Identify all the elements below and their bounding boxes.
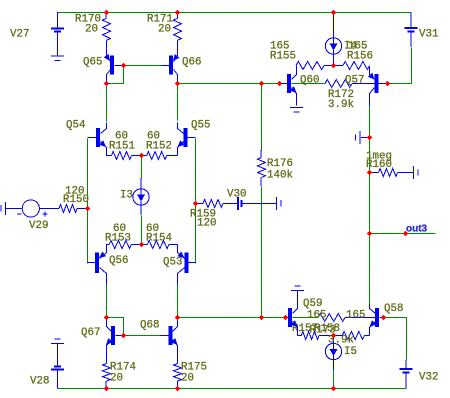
junction Q67 base	[121, 333, 127, 339]
svg-text:Q54: Q54	[66, 120, 85, 132]
junction R170 / top rail	[104, 10, 110, 16]
junction Q65 collector	[104, 81, 110, 87]
transistor Q60	[292, 66, 297, 80]
resistor R172	[325, 80, 352, 88]
ground V29	[5, 202, 7, 215]
ground V27	[51, 55, 64, 57]
junction R150 / input node	[85, 206, 91, 212]
ground Q59 collector	[291, 290, 304, 292]
svg-text:R153: R153	[105, 233, 131, 245]
resistor R173	[318, 314, 345, 322]
ground V28	[51, 342, 64, 344]
junction ground tap on output column	[367, 135, 373, 141]
svg-text:R151: R151	[109, 141, 135, 153]
wire I3 top	[141, 156, 143, 179]
svg-text:Q57: Q57	[345, 75, 364, 87]
wire Q60 base through to R172	[292, 83, 326, 85]
ground after R160	[413, 166, 415, 179]
svg-text:V31: V31	[419, 29, 438, 41]
resistor R174	[103, 364, 111, 382]
svg-text:R156: R156	[347, 51, 373, 63]
junction R176 bottom	[259, 315, 265, 321]
wire left input node	[87, 139, 89, 264]
svg-text:20: 20	[181, 373, 194, 385]
junction R153-R154 / I3 bottom	[139, 242, 145, 248]
svg-text:Q55: Q55	[191, 120, 210, 132]
transistor Q67	[107, 318, 112, 332]
svg-text:V28: V28	[30, 376, 49, 388]
wire Q59 base through to R173	[293, 317, 319, 319]
svg-text:I5: I5	[344, 346, 357, 358]
svg-text:R160: R160	[366, 159, 392, 171]
wire Q58 base to V32	[384, 318, 407, 361]
voltage source V27	[57, 12, 59, 28]
junction R171 / top rail	[175, 10, 181, 16]
svg-text:Q66: Q66	[182, 57, 201, 69]
wire Q53 collector to Q59 base	[178, 317, 286, 319]
wire Q66 collector to Q60 base	[178, 83, 280, 85]
transistor Q57	[370, 67, 375, 80]
svg-text:R154: R154	[146, 233, 172, 245]
svg-text:140k: 140k	[267, 170, 293, 182]
junction Q58 base pin	[381, 315, 387, 321]
voltage source V31	[410, 12, 412, 28]
junction R176 top	[259, 81, 265, 87]
resistor R150	[59, 205, 77, 213]
junction R160	[367, 170, 373, 176]
svg-text:Q53: Q53	[163, 257, 182, 269]
wire top rail	[58, 12, 412, 14]
wire Q65 base to Q66 base	[124, 65, 162, 67]
transistor Q56	[100, 245, 107, 259]
junction R175 / bottom rail	[175, 386, 181, 392]
svg-text:20: 20	[158, 24, 171, 36]
svg-text:165: 165	[307, 310, 326, 322]
transistor Q65	[107, 41, 111, 62]
svg-text:I3: I3	[120, 190, 133, 202]
wire Q53 collector down	[177, 285, 179, 318]
svg-text:V27: V27	[10, 29, 29, 41]
wire Q66 collector to Q55 collector	[177, 84, 179, 121]
junction Q57 base pin	[385, 81, 391, 87]
wire Q67 diode loop	[107, 318, 124, 336]
junction R151-R152 / I3 top	[139, 153, 145, 159]
svg-text:Q58: Q58	[384, 303, 403, 315]
svg-text:R155: R155	[270, 51, 296, 63]
resistor R152	[147, 152, 167, 160]
svg-text:out3: out3	[406, 224, 428, 235]
transistor Q55	[178, 123, 184, 134]
wire R176 top branch	[261, 84, 263, 151]
svg-text:V29: V29	[29, 220, 48, 232]
resistor R175	[174, 364, 182, 382]
svg-text:20: 20	[110, 373, 123, 385]
resistor R155	[296, 62, 324, 70]
transistor Q54	[101, 123, 107, 134]
transistor Q53	[178, 245, 185, 259]
resistor R170	[105, 12, 107, 18]
resistor R176	[260, 150, 262, 158]
current source I3	[140, 178, 142, 189]
voltage source V30	[223, 202, 238, 204]
svg-text:Q68: Q68	[140, 320, 159, 332]
voltage source V32	[405, 360, 407, 369]
junction out3 / output column	[367, 231, 373, 237]
resistor R159	[203, 200, 223, 208]
wire Q56 collector down	[106, 285, 108, 318]
svg-text:Q59: Q59	[303, 298, 322, 310]
resistor R160	[369, 172, 379, 174]
wire Q57 base to V31	[388, 48, 412, 84]
svg-text:Q67: Q67	[81, 327, 100, 339]
transistor Q66	[174, 41, 178, 62]
junction Q53-Q68 collectors	[175, 315, 181, 321]
junction I5 / bottom rail	[331, 386, 337, 392]
svg-text:R150: R150	[63, 194, 89, 206]
junction Q56-Q67 collectors	[104, 315, 110, 321]
junction R174 / bottom rail	[104, 386, 110, 392]
transistor Q58	[370, 305, 376, 314]
junction out3 label anchor	[403, 231, 409, 237]
current source I5	[333, 335, 335, 343]
resistor R158	[342, 332, 364, 340]
svg-text:R152: R152	[146, 141, 172, 153]
current source I4	[333, 12, 335, 38]
svg-text:V32: V32	[419, 372, 438, 384]
resistor R153	[109, 241, 131, 249]
svg-text:R176: R176	[267, 158, 293, 170]
junction Q65 base	[121, 63, 127, 69]
svg-text:Q60: Q60	[300, 75, 319, 87]
svg-text:20: 20	[85, 24, 98, 36]
wire R176 bottom branch	[261, 187, 263, 318]
wire out3 net	[370, 233, 436, 235]
transistor Q59	[293, 291, 298, 314]
resistor R151	[112, 152, 132, 160]
voltage source V28	[57, 343, 59, 366]
resistor R157	[301, 332, 319, 340]
wire I5 to rail	[333, 370, 335, 389]
wire Q65 collector to Q54 collector	[106, 84, 108, 122]
voltage source V29	[6, 207, 22, 209]
svg-text:120: 120	[197, 218, 216, 230]
wire right input node	[195, 139, 197, 264]
wire bottom rail	[58, 388, 407, 390]
svg-text:165: 165	[346, 310, 365, 322]
junction Q59 base pin	[283, 315, 289, 321]
resistor R154	[147, 241, 169, 249]
svg-text:Q65: Q65	[83, 57, 102, 69]
svg-text:V30: V30	[227, 189, 246, 201]
resistor R171	[177, 12, 179, 18]
transistor Q68	[173, 318, 178, 332]
wire I3 bottom	[141, 216, 143, 245]
ground tap on output column	[361, 137, 369, 139]
junction R155-R156 / I4	[331, 63, 337, 69]
resistor R156	[343, 62, 370, 70]
ground after V30	[275, 197, 277, 210]
wire Q57 collector column	[369, 106, 371, 305]
wire Q67 base to Q68 base	[124, 335, 161, 337]
svg-text:3.9k: 3.9k	[328, 99, 354, 111]
junction R157-R158 / I5	[331, 333, 337, 339]
junction I4 / top rail	[331, 10, 337, 16]
wire Q65 diode loop	[107, 66, 124, 84]
junction Q66 collector / Q55 collector	[175, 81, 181, 87]
junction Q60 base pin	[277, 81, 283, 87]
ground Q60 emitter	[290, 107, 303, 109]
svg-text:Q56: Q56	[109, 255, 128, 267]
svg-text:R158: R158	[314, 323, 340, 335]
junction R159 / right base node	[193, 201, 199, 207]
